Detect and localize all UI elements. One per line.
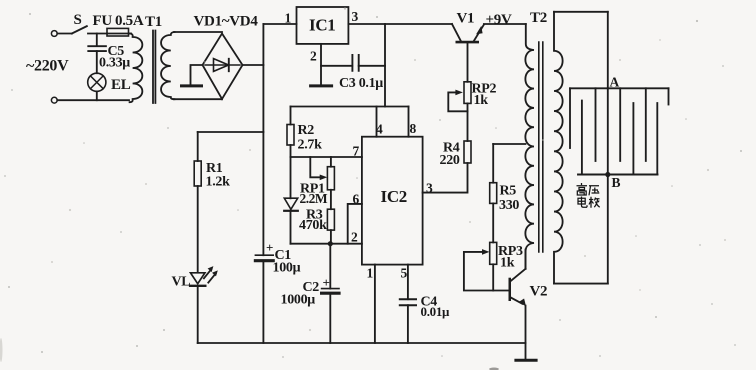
svg-text:2.7k: 2.7k: [298, 138, 323, 153]
bridge rectifier VD1~VD4: [203, 34, 243, 100]
wire: [57, 33, 72, 35]
svg-text:VL: VL: [172, 274, 191, 289]
transformer T1 secondary: [161, 32, 174, 99]
svg-text:330: 330: [499, 198, 519, 213]
capacitor C5: [88, 45, 106, 47]
ground bar (IC1): [311, 84, 332, 87]
wire IC2 pin6 link: [348, 204, 362, 244]
svg-text:C3 0.1μ: C3 0.1μ: [339, 76, 383, 91]
svg-text:470k: 470k: [299, 218, 327, 233]
svg-text:+: +: [266, 240, 273, 255]
svg-text:4: 4: [376, 122, 383, 137]
wire IC1 pin3 +9V rail: [348, 23, 452, 25]
svg-text:1k: 1k: [500, 255, 515, 270]
wire: [96, 51, 98, 73]
wire: [197, 186, 199, 272]
wire: [290, 211, 292, 244]
wire V2 emitter: [525, 306, 527, 361]
wire: [492, 203, 494, 242]
wire IC2 pin5 stub: [407, 265, 409, 300]
potentiometer RP2: [464, 82, 471, 104]
electrode finger: [619, 88, 621, 161]
wire IC2 pin3 out: [423, 163, 468, 193]
capacitor C2: [329, 244, 331, 289]
svg-text:R2: R2: [298, 123, 315, 138]
wire: [290, 107, 292, 125]
LED VL: [191, 273, 205, 284]
electrode finger: [595, 88, 597, 161]
svg-text:0.5A: 0.5A: [115, 13, 144, 29]
node B junction: [605, 172, 610, 177]
wire DC rail: [262, 24, 264, 255]
timer IC2: [362, 137, 423, 265]
capacitor C4: [400, 298, 416, 300]
wire: [88, 33, 107, 35]
wire bridge minus: [191, 65, 203, 84]
lamp EL: [88, 73, 106, 91]
wire: [290, 157, 292, 198]
svg-text:6: 6: [353, 192, 360, 207]
transformer T2 secondary: [554, 12, 563, 284]
wire: [407, 305, 409, 343]
svg-text:2: 2: [351, 230, 358, 245]
wire R1 top link: [198, 131, 264, 133]
svg-text:T1: T1: [145, 14, 162, 30]
transistor V2: [509, 278, 512, 301]
svg-text:1: 1: [285, 11, 292, 26]
fuse FU 0.5A: [107, 28, 129, 36]
ground bar (bridge): [182, 84, 202, 87]
electrode finger: [581, 101, 583, 175]
switch S: [72, 26, 87, 33]
svg-text:A: A: [610, 75, 620, 90]
svg-text:1000μ: 1000μ: [281, 293, 316, 308]
wire C3 branch: [321, 65, 352, 67]
wire rail to IC1 pin1: [263, 23, 296, 25]
svg-text:B: B: [612, 175, 621, 190]
svg-text:V1: V1: [457, 11, 475, 27]
wire: [290, 145, 292, 157]
wire secondary top to bridge: [174, 31, 222, 33]
wire timing top rail: [291, 106, 409, 108]
svg-text:1.2k: 1.2k: [206, 175, 231, 190]
label 高压 (drawn strokes): [577, 183, 600, 195]
wire: [197, 132, 199, 161]
wire: [330, 230, 332, 244]
wire ground rail: [198, 342, 526, 344]
svg-text:VD1~VD4: VD1~VD4: [194, 14, 259, 30]
svg-text:T2: T2: [530, 10, 547, 26]
svg-text:2: 2: [310, 49, 317, 64]
wire secondary top to A: [554, 11, 608, 13]
electrode finger: [632, 103, 634, 175]
resistor R5: [490, 183, 497, 204]
potentiometer RP3: [490, 242, 497, 264]
ground: [516, 359, 536, 362]
electrode bottom bar: [578, 174, 658, 176]
wire +9V to T2: [484, 23, 526, 25]
resistor R1: [194, 161, 201, 186]
electrode finger: [668, 88, 670, 104]
svg-text:S: S: [74, 12, 82, 28]
transformer T1 core: [153, 31, 155, 104]
transformer T1 primary: [130, 34, 143, 103]
wire IC1 pin2: [320, 44, 322, 85]
wire: [330, 190, 332, 209]
wire: [262, 261, 264, 343]
wire IC2 pin4 stub: [376, 107, 378, 137]
wire V1 base: [467, 43, 469, 82]
diode VD: [284, 198, 297, 209]
svg-text:2.2M: 2.2M: [300, 191, 328, 206]
svg-text:~220V: ~220V: [26, 58, 69, 75]
resistor R4: [464, 141, 471, 163]
potentiometer RP1: [327, 167, 334, 190]
wire IC2 pin1 stub: [374, 265, 376, 343]
wire: [197, 286, 199, 343]
wire IC2 pin2 link: [291, 243, 362, 245]
electrode finger: [569, 88, 571, 148]
resistor R2: [287, 125, 294, 146]
svg-text:3: 3: [426, 181, 433, 196]
electrode center finger: [607, 88, 609, 174]
wire secondary bottom to B: [554, 283, 608, 285]
electrode finger: [645, 88, 647, 161]
svg-text:0.01μ: 0.01μ: [421, 304, 451, 319]
wire IC2 pin7 link: [291, 156, 362, 158]
capacitor C1: [255, 254, 273, 256]
svg-text:+: +: [323, 275, 330, 290]
wire: [129, 33, 132, 35]
svg-text:0.33μ: 0.33μ: [99, 56, 130, 71]
electrode top bar: [570, 87, 669, 89]
svg-text:+9V: +9V: [486, 12, 512, 28]
wire: [492, 144, 494, 183]
svg-text:1k: 1k: [474, 93, 489, 108]
wire: [329, 293, 331, 343]
wire bridge plus to rail: [243, 64, 264, 66]
wire RP3 wiper loop: [464, 252, 509, 291]
wire node B drop: [607, 175, 609, 284]
svg-text:3: 3: [352, 9, 359, 24]
wire node A drop: [607, 12, 609, 89]
wire: [467, 103, 469, 141]
wire: [492, 264, 494, 290]
svg-text:5: 5: [401, 266, 408, 281]
op-amp IC1: [297, 7, 349, 44]
wire: [359, 65, 385, 67]
wire drop to timing rail: [384, 24, 386, 107]
resistor R3: [327, 209, 334, 230]
wire R5 tap to T2: [493, 143, 525, 145]
svg-text:V2: V2: [530, 283, 548, 299]
capacitor C3: [352, 55, 358, 71]
svg-text:8: 8: [410, 121, 417, 136]
electrode finger: [656, 103, 658, 175]
terminal top input: [51, 31, 57, 37]
terminal bottom input: [51, 97, 57, 103]
svg-text:1: 1: [367, 266, 374, 281]
wire bottom input: [57, 99, 129, 101]
wire secondary bottom to bridge: [174, 98, 222, 100]
wire C5 branch: [96, 34, 98, 47]
node junction: [328, 241, 333, 246]
svg-text:IC1: IC1: [309, 16, 336, 35]
svg-text:R5: R5: [500, 183, 517, 198]
wire IC2 pin8 stub: [408, 107, 410, 137]
label 电极 (drawn strokes): [578, 197, 600, 208]
transformer T2 core: [539, 42, 543, 252]
svg-text:IC2: IC2: [381, 187, 408, 206]
svg-text:100μ: 100μ: [273, 261, 301, 276]
transistor V1: [452, 24, 461, 41]
wire RP2 wiper loop: [448, 92, 467, 111]
transformer T2 primary: [525, 24, 534, 269]
svg-text:220: 220: [440, 153, 460, 168]
svg-text:FU: FU: [93, 13, 113, 29]
wire RP1 top: [330, 157, 332, 167]
svg-text:7: 7: [353, 144, 360, 159]
svg-text:EL: EL: [111, 77, 131, 93]
wire: [96, 91, 98, 100]
